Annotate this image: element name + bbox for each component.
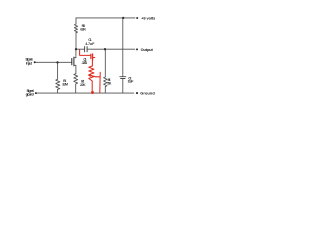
wire red channel to red resistor — [91, 60, 93, 66]
svg-text:2.2K: 2.2K — [80, 83, 86, 87]
transistor Q1 gate bar — [71, 59, 73, 65]
wire R3 bottom to drain node — [75, 33, 77, 50]
wire signal input — [36, 61, 72, 63]
svg-text:input: input — [26, 60, 33, 65]
wire ground rail — [37, 92, 134, 94]
wire R2 bottom lead — [75, 84, 77, 93]
svg-text:4.7uF: 4.7uF — [85, 42, 95, 46]
node +9 volts terminal — [136, 17, 138, 19]
wire R4 bottom lead — [104, 87, 106, 94]
svg-text:Ground: Ground — [140, 91, 155, 96]
red wiper horizontal — [96, 76, 100, 78]
resistor R4 — [104, 77, 107, 87]
transistor Q1 channel bar — [73, 57, 75, 66]
wire R4 top lead — [104, 49, 106, 77]
transistor Q1 red channel bar — [92, 54, 94, 60]
wire C2 bottom to ground rail — [122, 79, 124, 94]
transistor Q1 red gate bar — [90, 54, 92, 58]
wire drain node to C1 — [76, 48, 85, 50]
svg-text:3.3M: 3.3M — [62, 83, 68, 87]
svg-text:6.8K: 6.8K — [80, 27, 86, 31]
wire R3 top lead — [75, 18, 77, 24]
svg-text:51K: 51K — [107, 81, 112, 85]
svg-text:ground: ground — [26, 92, 35, 97]
node R4 top junction dot — [104, 48, 106, 50]
wire red resistor to ground rail — [91, 81, 93, 92]
red wiper vertical bar — [99, 72, 101, 93]
red wiper arrow diagonal — [90, 75, 95, 76]
transistor Q1 red stub — [93, 57, 95, 59]
wire Q1 drain lead — [74, 49, 76, 58]
wire +9 rail junction down to C2 — [122, 18, 124, 76]
transistor Q1 red overlay: gate lead — [80, 50, 101, 93]
svg-text:10uF: 10uF — [128, 80, 135, 84]
wire R1 top lead — [57, 62, 59, 79]
node red ground junction dot — [91, 91, 94, 94]
node output terminal — [136, 48, 138, 50]
node signal input terminal — [34, 61, 36, 63]
red arrowhead — [88, 73, 91, 77]
capacitor C2 — [120, 77, 126, 79]
wire R1 bottom lead — [57, 89, 59, 93]
wire top +9V rail — [76, 17, 135, 19]
resistor R2 — [74, 74, 78, 84]
svg-text:+9 volts: +9 volts — [141, 15, 155, 20]
wire Q1 source lead — [74, 65, 76, 73]
svg-text:J201: J201 — [82, 61, 88, 65]
node +9 rail junction dot — [122, 17, 124, 19]
svg-text:Output: Output — [141, 47, 154, 52]
wire C1 to output terminal — [87, 48, 135, 50]
resistor R3 — [74, 24, 77, 33]
resistor red source resistor — [89, 66, 94, 81]
node R1 top junction dot — [56, 61, 58, 63]
resistor R1 — [56, 79, 60, 89]
capacitor C1 — [85, 47, 88, 52]
node drain junction dot — [75, 48, 77, 50]
node ground terminal — [136, 92, 138, 94]
node signal ground terminal — [35, 92, 37, 94]
